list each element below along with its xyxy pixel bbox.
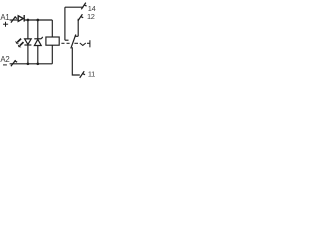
wire coil bottom (51, 45, 53, 64)
node junction bottom 1 (27, 62, 30, 65)
terminal A1 label (0, 13, 9, 22)
node junction bottom 2 (36, 62, 39, 65)
wire bottom rail (10, 63, 53, 65)
plus sign A1 (3, 22, 8, 27)
node junction top 2 (36, 19, 39, 22)
terminal A2 label (0, 55, 9, 64)
wire to coil top (51, 20, 53, 37)
terminal clamp 12 (78, 14, 83, 21)
NO contact tick (65, 39, 69, 41)
wire top rail (24, 19, 52, 21)
wire LED branch upper (27, 20, 29, 39)
terminal clamp A2 (11, 60, 17, 66)
node junction top 1 (27, 19, 30, 22)
contact arm (71, 35, 76, 49)
wire contact 14 top (65, 6, 84, 8)
wire NC contact vertical (77, 19, 79, 37)
svg-text:A2: A2 (0, 55, 9, 64)
LED (indicator diode) (24, 39, 31, 45)
svg-text:12: 12 (87, 12, 95, 21)
wire zener branch upper (37, 20, 39, 39)
zener diode Z1 (34, 37, 42, 46)
wire common 11 (72, 47, 80, 75)
svg-text:A1: A1 (0, 13, 9, 22)
terminal clamp A1 (11, 16, 17, 22)
wire A1 to diode (10, 19, 19, 21)
wire zener branch lower (37, 46, 39, 64)
wire NO contact vertical (64, 7, 66, 40)
minus sign A2 (3, 64, 7, 66)
wire LED branch lower (27, 45, 29, 64)
LED arrows (15, 39, 23, 48)
svg-text:11: 11 (88, 69, 95, 78)
mechanical link dashed (61, 40, 90, 47)
terminal clamp 11 (80, 71, 85, 78)
terminal clamp 14 (81, 3, 86, 10)
diode D1 (series input diode) (18, 15, 24, 22)
NC contact tick (75, 35, 79, 37)
relay coil K1 (46, 37, 59, 45)
